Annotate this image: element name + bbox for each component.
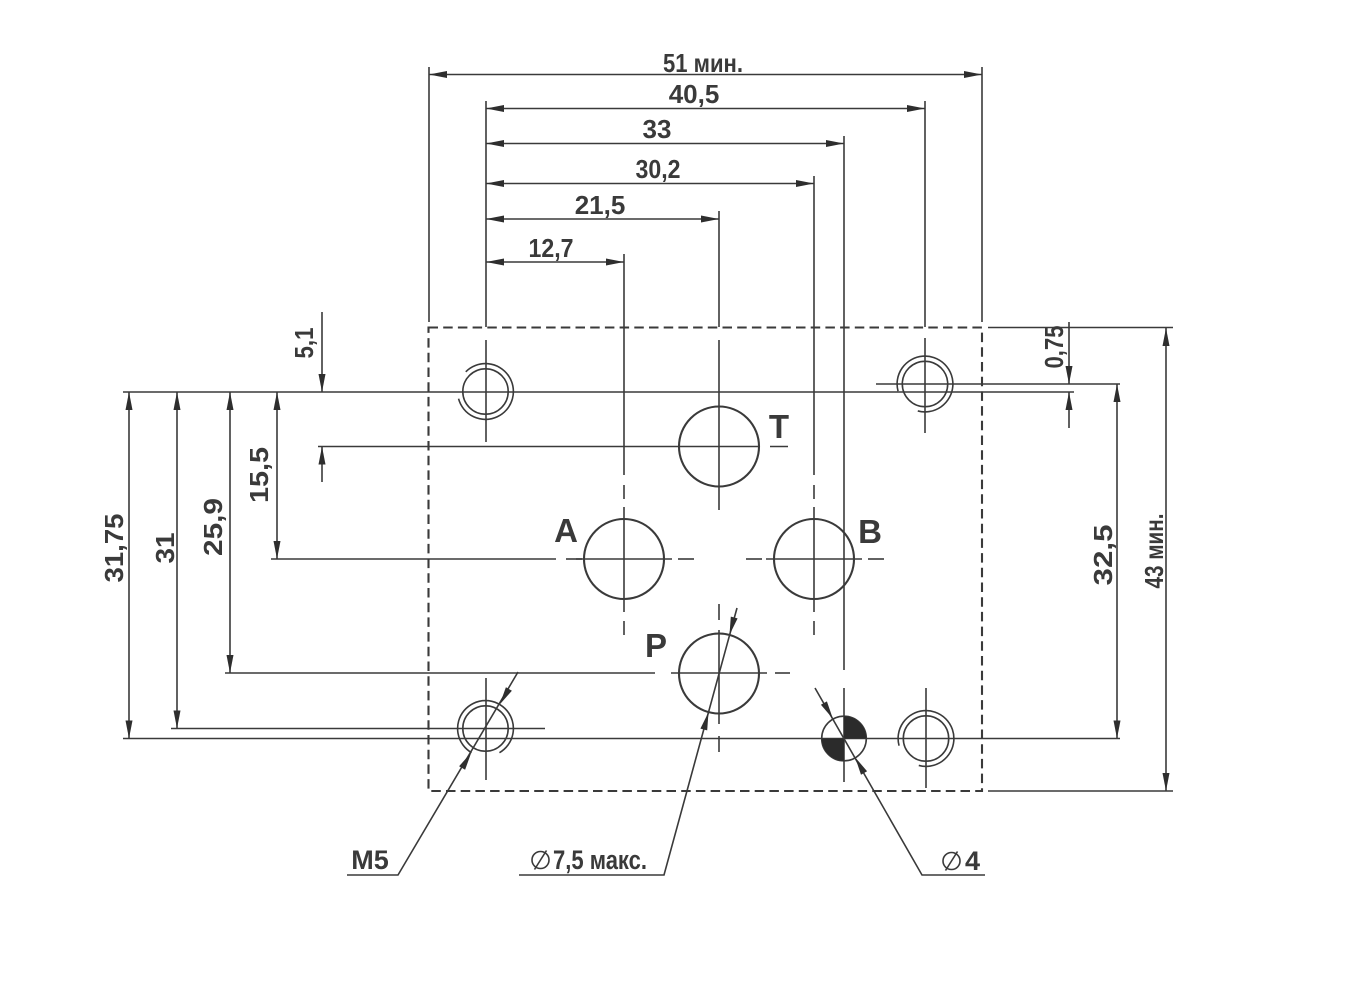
svg-text:5,1: 5,1 — [289, 328, 319, 359]
svg-text:40,5: 40,5 — [669, 79, 720, 109]
svg-text:32,5: 32,5 — [1088, 525, 1118, 586]
svg-text:25,9: 25,9 — [198, 498, 228, 556]
svg-text:43 мин.: 43 мин. — [1139, 514, 1169, 589]
svg-text:21,5: 21,5 — [575, 190, 626, 220]
svg-text:M5: M5 — [351, 845, 389, 875]
svg-text:4: 4 — [965, 846, 980, 876]
svg-text:P: P — [645, 627, 667, 664]
svg-text:12,7: 12,7 — [529, 233, 574, 263]
svg-text:B: B — [858, 513, 882, 550]
svg-text:51 мин.: 51 мин. — [663, 48, 743, 78]
svg-text:30,2: 30,2 — [636, 154, 681, 184]
svg-text:31: 31 — [150, 533, 180, 564]
svg-text:0,75: 0,75 — [1039, 326, 1069, 369]
svg-text:33: 33 — [643, 114, 672, 144]
svg-text:31,75: 31,75 — [99, 514, 129, 583]
svg-text:A: A — [554, 512, 578, 549]
svg-text:T: T — [769, 408, 789, 445]
svg-text:7,5 макс.: 7,5 макс. — [553, 845, 647, 875]
svg-text:15,5: 15,5 — [244, 447, 274, 503]
